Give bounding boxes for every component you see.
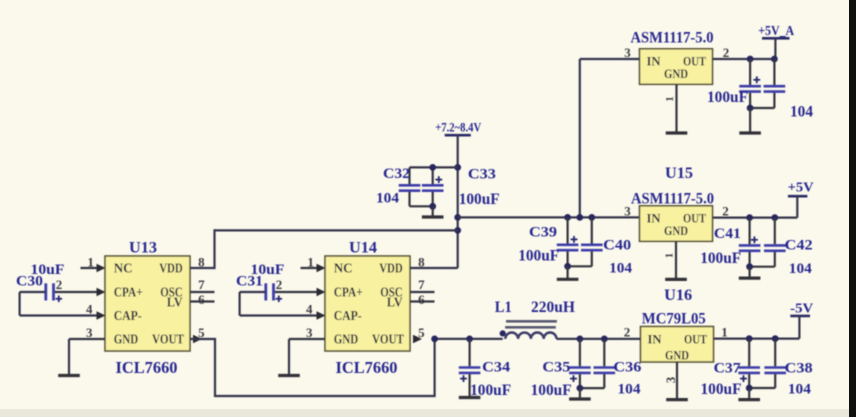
C37 plus polarity mark [740, 378, 747, 380]
svg-text:LV: LV [167, 295, 183, 310]
node junction C41 top [746, 214, 753, 221]
svg-text:IN: IN [648, 331, 663, 346]
power port +5V_A bar [762, 37, 790, 40]
C34 plus polarity mark [460, 378, 467, 380]
wire C37 C38 bottom connector [749, 387, 775, 389]
wire C32/C33 ground stem [432, 206, 434, 217]
U13 pin 7 OSC stub [190, 291, 215, 293]
svg-text:104: 104 [618, 382, 642, 398]
svg-text:C32: C32 [383, 166, 410, 182]
node junction riser bottom [576, 214, 583, 221]
wire tee to C32 C33 [410, 166, 458, 168]
U13 ground symbol [58, 374, 80, 377]
C30 loop vertical wire [19, 292, 21, 316]
svg-text:CPA+: CPA+ [334, 285, 363, 300]
svg-text:CAP-: CAP- [334, 308, 362, 323]
svg-text:ASM1117-5.0: ASM1117-5.0 [631, 191, 714, 208]
svg-text:104: 104 [609, 261, 633, 277]
svg-text:VDD: VDD [379, 261, 403, 276]
svg-text:100uF: 100uF [459, 191, 500, 208]
svg-text:C38: C38 [785, 360, 813, 376]
svg-text:1: 1 [721, 325, 728, 340]
svg-text:2: 2 [276, 277, 283, 292]
op-amp U14 ICL7660 body [325, 256, 410, 351]
node junction C36 top [601, 336, 608, 343]
svg-text:MC79L05: MC79L05 [642, 311, 706, 328]
svg-text:4: 4 [306, 302, 313, 317]
node junction C41/C42 bottom [746, 263, 753, 270]
node junction C40 top [588, 214, 595, 221]
node junction C39/C40 bottom [564, 263, 571, 270]
node junction top caps bottom [747, 105, 754, 112]
svg-text:U16: U16 [664, 287, 692, 304]
capacitor C31 10uF flying cap plates [264, 283, 267, 300]
svg-text:6: 6 [418, 292, 425, 307]
C35 plus polarity mark [570, 378, 577, 380]
wire C37 ground stem [748, 388, 750, 400]
voltage regulator U16 body [641, 327, 714, 363]
C30 plus polarity mark [56, 298, 63, 300]
node junction top output at 100uF [747, 56, 754, 63]
svg-text:3: 3 [664, 377, 678, 383]
capacitor C38 104 (U16 output) [774, 339, 776, 367]
capacitor 100uF (top, polarized) [749, 59, 751, 85]
U13 pin 6 LV stub [190, 300, 215, 302]
svg-text:C33: C33 [468, 166, 496, 182]
svg-text:ICL7660: ICL7660 [336, 358, 398, 377]
capacitor C41 100uF (U15 output) [748, 218, 750, 245]
svg-text:1: 1 [664, 96, 676, 102]
svg-text:L1: L1 [495, 299, 512, 316]
ground symbol for top caps [739, 131, 761, 134]
wire top caps ground stem [749, 108, 751, 133]
svg-text:VDD: VDD [159, 261, 183, 276]
svg-text:3: 3 [624, 45, 631, 60]
svg-text:C36: C36 [613, 360, 642, 376]
U13 pin 5 VOUT arrow [193, 335, 202, 343]
U15 GND pin wire [675, 241, 677, 279]
svg-text:2: 2 [722, 204, 729, 219]
node junction C35/C36 bottom [577, 385, 584, 392]
svg-text:C30: C30 [16, 274, 43, 290]
top regulator GND pin wire [675, 84, 677, 133]
wire U13 pin8 VDD to riser [190, 229, 215, 268]
C30 left wire to CPA+ [20, 291, 46, 293]
svg-text:100uF: 100uF [470, 382, 511, 399]
capacitor C33 100uF input polarized [432, 167, 434, 184]
svg-text:-5V: -5V [790, 301, 813, 316]
capacitor C42 104 (U15 output) [774, 218, 776, 245]
voltage regulator U15 body [640, 206, 713, 242]
U14 pin 1 NC wire [301, 267, 320, 269]
node junction main vertical and input rail [454, 214, 461, 221]
U13 pin 1 NC wire [81, 267, 100, 269]
svg-text:+5V: +5V [788, 179, 814, 194]
svg-text:C35: C35 [542, 360, 570, 376]
ground symbol for top regulator [666, 131, 688, 134]
wire top regulator output [713, 58, 776, 60]
capacitor C30 10uF flying cap plates [44, 283, 47, 300]
svg-text:VOUT: VOUT [372, 332, 404, 347]
node junction C32/C33 bottom [429, 203, 436, 210]
wire U13 VOUT to bottom run [190, 339, 435, 396]
capacitor C35 100uF (post-filter) [579, 339, 581, 366]
svg-text:220uH: 220uH [531, 299, 576, 316]
U14 pin 5 VOUT arrow [413, 335, 422, 343]
svg-text:LV: LV [387, 295, 403, 310]
wire C39 ground stem [566, 266, 568, 279]
op-amp U13 ICL7660 body [105, 256, 190, 351]
U13 pin 2 CPA+ wire [54, 291, 100, 293]
node junction main vertical and VDD rail [454, 227, 461, 234]
svg-text:3: 3 [86, 325, 93, 340]
svg-text:104: 104 [788, 382, 812, 398]
svg-text:GND: GND [665, 348, 689, 363]
wire C41 ground stem [748, 267, 750, 278]
wire C41 C42 bottom connector [750, 266, 775, 268]
C33 plus polarity mark [435, 179, 442, 181]
voltage regulator ASM1117-5.0 (top) body [640, 49, 713, 85]
U14 pin 7 OSC stub [410, 291, 435, 293]
svg-text:U13: U13 [129, 240, 157, 257]
svg-text:ICL7660: ICL7660 [116, 358, 178, 377]
power port -5V bar [790, 315, 810, 318]
capacitor C32 104 input ceramic [408, 167, 410, 184]
wire +5V stem [796, 196, 798, 217]
capacitor C34 100uF (pre-filter) [469, 339, 471, 366]
U14 ground wire down [288, 339, 290, 376]
svg-text:VOUT: VOUT [152, 332, 184, 347]
svg-text:3: 3 [624, 204, 631, 219]
svg-text:+5V_A: +5V_A [758, 23, 794, 38]
C41 plus polarity mark [751, 239, 758, 241]
svg-text:100uF: 100uF [701, 381, 742, 398]
wire -5V stem [798, 316, 800, 339]
wire top caps bottom connector [750, 107, 774, 109]
node junction C37 top [746, 335, 753, 342]
svg-text:U15: U15 [665, 165, 693, 182]
svg-text:GND: GND [664, 223, 688, 238]
capacitor C39 100uF (U15 input) [566, 217, 568, 243]
U13 ground wire down [68, 339, 70, 376]
power port +7.2~8.4V bar [445, 134, 471, 137]
node junction U13/U14 VOUT tie [431, 336, 438, 343]
svg-text:7: 7 [418, 277, 425, 292]
ground symbol for C37/C38 [738, 398, 760, 401]
svg-text:100uF: 100uF [700, 250, 741, 267]
svg-text:3: 3 [306, 325, 313, 340]
node junction C34 top [466, 336, 473, 343]
svg-text:104: 104 [376, 190, 400, 206]
wire main supply vertical [457, 135, 459, 268]
svg-text:NC: NC [334, 261, 353, 276]
top 100uF plus polarity mark [753, 79, 760, 81]
ground symbol for C41/C42 [739, 277, 761, 280]
wire top regulator input from riser [580, 58, 640, 60]
svg-text:GND: GND [664, 66, 688, 81]
svg-text:U14: U14 [349, 240, 377, 257]
C31 plus polarity mark [276, 298, 283, 300]
node junction C37/C38 bottom [746, 385, 753, 392]
svg-text:GND: GND [114, 332, 139, 347]
svg-text:OUT: OUT [684, 331, 707, 346]
svg-text:2: 2 [624, 325, 631, 340]
svg-text:104: 104 [790, 104, 813, 121]
wire U14 pin8 VDD to main vertical [410, 267, 458, 269]
capacitor 104 (top ceramic) [773, 59, 775, 85]
svg-text:6: 6 [198, 292, 205, 307]
inductor L1 phase dot [500, 330, 506, 336]
svg-text:C39: C39 [529, 224, 557, 240]
ground symbol for U16 [666, 398, 688, 401]
wire VDD rail [215, 229, 458, 231]
svg-text:7: 7 [198, 277, 205, 292]
node junction C39 top [564, 214, 571, 221]
C39 plus polarity mark [571, 238, 578, 240]
wire C39 C40 bottom connector [568, 265, 592, 267]
node junction C33 top [429, 164, 436, 171]
U13 pin 3 GND wire [69, 338, 105, 340]
svg-text:+7.2~8.4V: +7.2~8.4V [435, 120, 481, 135]
svg-text:C42: C42 [785, 238, 813, 254]
inductor L1 coil [505, 333, 556, 339]
ground symbol for U15 [665, 278, 687, 281]
C31 loop vertical wire [239, 292, 241, 316]
wire +5V_A stem [774, 38, 776, 59]
svg-text:C37: C37 [714, 360, 742, 376]
ground symbol for C39/C40 [557, 278, 579, 281]
capacitor C37 100uF (U16 output) [748, 339, 750, 367]
svg-text:2: 2 [56, 277, 63, 292]
capacitor C36 104 (post-filter) [603, 339, 605, 366]
svg-text:C41: C41 [714, 226, 741, 242]
U14 pin 6 LV stub [410, 300, 435, 302]
wire C35 C36 bottom connector [580, 387, 604, 389]
svg-text:GND: GND [334, 332, 359, 347]
U14 pin 4 CAP- wire [240, 314, 319, 316]
inductor L1 core lines [506, 320, 557, 323]
node junction C35 top [577, 336, 584, 343]
wire riser from +7.2V rail to top regulator IN [579, 59, 581, 217]
svg-text:IN: IN [647, 54, 662, 69]
U14 ground symbol [278, 374, 300, 377]
node junction C38 top [772, 335, 779, 342]
ground symbol for C34 [459, 396, 481, 399]
wire VOUT rail left of L1 [435, 338, 503, 340]
svg-text:CPA+: CPA+ [114, 285, 143, 300]
wire U15 output [713, 217, 798, 219]
svg-text:C34: C34 [482, 360, 511, 376]
wire C35 ground stem [579, 388, 581, 399]
ground symbol for C32/C33 [422, 215, 444, 218]
C31 left wire to CPA+ [240, 291, 266, 293]
U13 pin 4 CAP- wire [20, 314, 99, 316]
svg-text:100uF: 100uF [707, 89, 748, 106]
svg-text:100uF: 100uF [518, 247, 559, 264]
svg-text:2: 2 [723, 45, 730, 60]
wire VOUT rail right of L1 [557, 338, 641, 340]
ground symbol for C35/C36 [569, 397, 591, 400]
node junction supply to C32/C33 tee [454, 164, 461, 171]
capacitor C40 104 (U15 input) [591, 217, 593, 243]
U14 pin 3 GND wire [289, 338, 325, 340]
wire C32 C33 bottom connector [410, 205, 433, 207]
U14 pin 2 CPA+ wire [274, 291, 320, 293]
photo bottom soft shade [0, 409, 856, 417]
power port +5V bar [788, 195, 808, 198]
svg-text:ASM1117-5.0: ASM1117-5.0 [631, 30, 714, 47]
svg-text:C40: C40 [603, 237, 631, 253]
svg-text:NC: NC [114, 261, 133, 276]
svg-text:100uF: 100uF [531, 382, 572, 399]
node junction C42 top [771, 214, 778, 221]
svg-text:C31: C31 [236, 274, 263, 290]
svg-text:CAP-: CAP- [114, 308, 142, 323]
wire U16 output [714, 338, 800, 340]
svg-text:104: 104 [789, 261, 813, 277]
photo edge black bar at right [849, 0, 856, 417]
svg-text:4: 4 [86, 302, 93, 317]
node junction top output at 104/riser [771, 56, 778, 63]
svg-text:1: 1 [664, 253, 676, 259]
wire input rail to U15 [458, 216, 640, 218]
svg-text:IN: IN [647, 211, 662, 226]
U16 GND pin wire [676, 362, 678, 400]
